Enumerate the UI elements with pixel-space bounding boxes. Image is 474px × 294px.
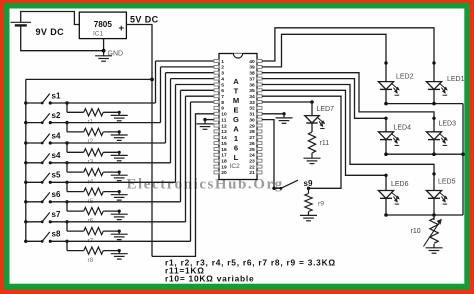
switch s4 xyxy=(26,134,52,145)
svg-text:18: 18 xyxy=(221,159,227,165)
svg-text:s1: s1 xyxy=(52,91,61,100)
wire pin 40 to LED1 anode xyxy=(262,28,434,82)
svg-text:IC2: IC2 xyxy=(230,163,241,170)
switch s1 xyxy=(26,94,52,105)
wire row3 bus to r10 xyxy=(433,215,435,220)
wire LED2 cathode drop xyxy=(385,89,387,103)
svg-text:7: 7 xyxy=(221,94,224,100)
ground row 4 xyxy=(111,171,128,181)
label r1 xyxy=(88,119,94,126)
wire s9 to r9 xyxy=(308,188,310,193)
svg-text:5: 5 xyxy=(221,82,224,88)
wire LED6 cathode drop xyxy=(385,198,387,215)
node bus junction row 6 xyxy=(24,200,27,203)
node row 1 junction xyxy=(65,101,68,104)
resistor r8 xyxy=(67,241,119,254)
svg-text:19: 19 xyxy=(221,164,227,170)
svg-text:r10= 10KΩ variable: r10= 10KΩ variable xyxy=(165,274,254,284)
label ATMEGA16L xyxy=(233,77,239,162)
ground row 1 xyxy=(111,111,128,121)
label resistor values line 2 xyxy=(165,266,205,276)
label s6 xyxy=(52,190,61,199)
svg-text:GND: GND xyxy=(108,51,124,58)
label resistor values line 3 xyxy=(165,274,254,284)
wire battery- to ground node xyxy=(21,25,104,50)
svg-text:39: 39 xyxy=(249,65,255,71)
svg-text:LED3: LED3 xyxy=(439,121,457,128)
IC U1 ATMEGA16L body xyxy=(219,54,257,180)
label s8 xyxy=(52,230,61,239)
svg-text:11: 11 xyxy=(221,117,226,123)
svg-text:r6: r6 xyxy=(88,217,94,224)
svg-text:+: + xyxy=(119,23,125,34)
wire row 7 riser to pin 7 xyxy=(186,96,214,222)
svg-text:25: 25 xyxy=(249,147,255,153)
wire LED row3 cathode bus xyxy=(386,214,463,216)
svg-text:20: 20 xyxy=(221,170,227,176)
svg-text:31: 31 xyxy=(249,112,255,118)
wire row 4 riser to pin 4 xyxy=(171,79,214,163)
label r3 xyxy=(88,159,94,166)
svg-text:22: 22 xyxy=(249,164,255,170)
watermark ElectronicsHub.Org xyxy=(127,177,284,193)
ground symbol r10 xyxy=(426,244,443,253)
node bus junction row 8 xyxy=(24,240,27,243)
wire row 2 to column xyxy=(50,122,160,124)
svg-text:5V DC: 5V DC xyxy=(130,14,159,24)
svg-text:32: 32 xyxy=(249,106,255,112)
node bus junction row 5 xyxy=(24,181,27,184)
LED LED7 xyxy=(305,116,325,129)
wire LED row1 cathode bus xyxy=(386,103,463,105)
svg-text:L: L xyxy=(234,153,239,162)
label s7 xyxy=(52,210,61,219)
switch s9 xyxy=(274,180,310,190)
ground symbol at pin 11 xyxy=(197,120,214,130)
label LED3 xyxy=(439,121,457,128)
label LED5 xyxy=(438,178,456,185)
wire battery+ to 7805 input xyxy=(21,12,80,25)
svg-text:8: 8 xyxy=(221,100,224,106)
wire pin 39 to LED2 anode xyxy=(262,34,386,81)
label GND xyxy=(108,51,124,58)
svg-text:s9: s9 xyxy=(304,179,313,188)
svg-text:LED5: LED5 xyxy=(438,178,456,185)
wire r11 to ground xyxy=(311,153,313,158)
LED LED6 xyxy=(378,191,399,205)
svg-text:37: 37 xyxy=(249,76,255,82)
svg-text:24: 24 xyxy=(249,153,255,159)
svg-text:29: 29 xyxy=(249,123,255,129)
node bus junction row 3 xyxy=(24,141,27,144)
svg-text:14: 14 xyxy=(221,135,227,141)
label r5 xyxy=(88,198,94,205)
svg-text:36: 36 xyxy=(249,82,255,88)
node bus junction row 4 xyxy=(24,161,27,164)
label IC2 xyxy=(230,163,241,170)
svg-text:2: 2 xyxy=(221,65,224,71)
resistor r5 xyxy=(67,182,119,195)
LED LED2 xyxy=(378,82,399,96)
label r11 xyxy=(320,140,330,147)
label LED6 xyxy=(391,181,409,188)
svg-text:34: 34 xyxy=(249,94,255,100)
resistor r4 xyxy=(67,163,119,176)
svg-text:9V DC: 9V DC xyxy=(36,27,65,37)
ground row 7 xyxy=(111,230,128,240)
svg-text:27: 27 xyxy=(249,135,255,141)
label 9V DC xyxy=(36,27,65,37)
node ground junction xyxy=(102,49,106,53)
resistor r11 xyxy=(308,132,315,153)
wire LED7 anode drop xyxy=(311,102,313,116)
node LED1 anode stub xyxy=(432,61,435,64)
label LED2 xyxy=(396,74,414,81)
svg-text:38: 38 xyxy=(249,71,255,77)
switch s5 xyxy=(26,173,52,184)
svg-text:G: G xyxy=(233,115,239,124)
resistor r7 xyxy=(67,222,119,235)
svg-text:r10: r10 xyxy=(411,228,421,235)
wire row 5 riser to pin 5 xyxy=(176,85,214,183)
node LED6 anode junction xyxy=(384,174,387,177)
node bus junction row 7 xyxy=(24,220,27,223)
svg-text:ElectronicsHub.Org: ElectronicsHub.Org xyxy=(127,177,284,193)
svg-text:33: 33 xyxy=(249,100,255,106)
node row3 cathode junctions xyxy=(384,213,436,217)
wire row 4 to column xyxy=(50,162,170,164)
node pin 11 ground junction xyxy=(203,118,206,121)
wire row 3 to column xyxy=(50,142,165,144)
wire pin 31 to ground xyxy=(262,113,284,115)
svg-text:E: E xyxy=(233,106,238,115)
wire row 7 to column xyxy=(50,221,185,223)
LED LED3 xyxy=(426,132,447,146)
label s4 xyxy=(52,151,61,160)
svg-text:28: 28 xyxy=(249,129,255,135)
svg-text:IC1: IC1 xyxy=(93,31,104,38)
svg-text:LED2: LED2 xyxy=(396,74,414,81)
wire pin 37 to LED4 anode xyxy=(262,79,386,132)
svg-text:23: 23 xyxy=(249,159,255,165)
svg-text:A: A xyxy=(233,125,239,134)
svg-text:r8: r8 xyxy=(88,257,94,264)
node LED7 anode junction xyxy=(310,100,314,104)
ground row 6 xyxy=(111,210,128,220)
svg-text:s6: s6 xyxy=(52,190,61,199)
svg-text:r2: r2 xyxy=(88,138,94,145)
svg-text:s2: s2 xyxy=(52,111,61,120)
svg-text:M: M xyxy=(233,96,239,105)
svg-text:9: 9 xyxy=(221,106,224,112)
wire switch bus vertical xyxy=(25,79,27,241)
svg-text:LED4: LED4 xyxy=(394,124,412,131)
svg-text:LED6: LED6 xyxy=(391,181,409,188)
node bus junction row 1 xyxy=(24,101,27,104)
switch s4 xyxy=(26,153,52,164)
resistor r1 xyxy=(67,103,119,116)
wire pin 36 to LED5 anode xyxy=(262,85,434,191)
label r2 xyxy=(88,138,94,145)
node row 5 junction xyxy=(65,181,68,184)
wire row 6 to column xyxy=(50,201,180,203)
svg-text:r11: r11 xyxy=(320,140,330,147)
wire LED3 cathode drop xyxy=(433,140,435,155)
svg-text:r9: r9 xyxy=(318,201,324,208)
wire row 1 to column xyxy=(50,102,155,104)
wire LED4 cathode drop xyxy=(385,140,387,155)
wire row 8 to column xyxy=(50,240,190,242)
wire pin 33 to LED7 xyxy=(262,101,312,103)
switch s2 xyxy=(26,113,52,124)
IC U1 pin numbers xyxy=(221,59,255,176)
node LED4 anode junction xyxy=(384,117,387,120)
ground row 5 xyxy=(111,190,128,200)
resistor r9 xyxy=(305,194,312,212)
label r8 xyxy=(88,257,94,264)
svg-text:s4: s4 xyxy=(52,151,61,160)
switch s8 xyxy=(26,232,52,243)
wire cathode rail xyxy=(462,104,464,215)
ground row 3 xyxy=(111,151,128,161)
wire row 3 riser to pin 3 xyxy=(166,73,214,143)
label r4 xyxy=(88,178,94,185)
ground row 2 xyxy=(111,130,128,140)
node s9 pivot xyxy=(272,187,275,190)
node row 8 junction xyxy=(65,240,68,243)
wire row 8 riser to pin 8 xyxy=(191,102,214,241)
ground symbol r11 xyxy=(304,158,321,163)
ground symbol pin 31 xyxy=(276,114,293,124)
svg-text:3: 3 xyxy=(221,71,224,77)
wire pin 11 to ground xyxy=(205,119,214,121)
node LED2 anode stub xyxy=(384,61,387,64)
resistor r3 xyxy=(67,143,119,156)
wire row 1 riser to pin 1 xyxy=(156,61,214,103)
wire r9 to ground xyxy=(308,212,310,216)
wire pin 30 to s9 xyxy=(262,120,274,189)
svg-text:13: 13 xyxy=(221,129,227,135)
node row 7 junction xyxy=(65,220,68,223)
wire LED row2 cathode bus xyxy=(386,153,463,155)
switch s6 xyxy=(26,192,52,203)
wire switch bus top to 5V xyxy=(26,78,152,80)
label s5 xyxy=(52,171,61,180)
wire pin 35 to LED6 anode xyxy=(262,90,386,190)
ground symbol main xyxy=(95,51,112,62)
svg-text:12: 12 xyxy=(221,123,227,129)
wire LED1 cathode drop xyxy=(433,89,435,103)
svg-text:16: 16 xyxy=(221,147,227,153)
svg-text:26: 26 xyxy=(249,141,255,147)
svg-text:1: 1 xyxy=(221,59,224,65)
svg-text:6: 6 xyxy=(221,88,224,94)
svg-text:s7: s7 xyxy=(52,210,61,219)
svg-text:s8: s8 xyxy=(52,230,61,239)
svg-text:21: 21 xyxy=(249,170,255,176)
label s1 xyxy=(52,91,61,100)
LED LED4 xyxy=(378,132,399,146)
node LED5 anode stub xyxy=(432,172,435,175)
svg-text:LED7: LED7 xyxy=(317,106,335,113)
label r9 xyxy=(318,201,324,208)
wire 5V output rail xyxy=(126,25,152,257)
svg-text:LED1: LED1 xyxy=(447,76,465,83)
svg-text:40: 40 xyxy=(249,59,255,65)
svg-text:4: 4 xyxy=(221,76,224,82)
wire row 2 riser to pin 2 xyxy=(161,67,214,123)
node row 2 junction xyxy=(65,121,68,124)
svg-text:30: 30 xyxy=(249,117,255,123)
wire pin 38 to LED3 anode xyxy=(262,73,434,132)
LED LED1 xyxy=(426,82,447,96)
label 5V DC xyxy=(130,14,159,24)
wire row 5 to column xyxy=(50,181,175,183)
svg-text:6: 6 xyxy=(234,144,238,153)
svg-text:r3: r3 xyxy=(88,159,94,166)
node row 4 junction xyxy=(65,161,68,164)
label s4 xyxy=(52,131,61,140)
node row 6 junction xyxy=(65,200,68,203)
wire LED7 cathode to r11 xyxy=(311,123,313,132)
label r6 xyxy=(88,217,94,224)
switch s7 xyxy=(26,212,52,223)
ground symbol r9 xyxy=(300,215,317,220)
label r7 xyxy=(88,237,94,244)
svg-text:17: 17 xyxy=(221,153,227,159)
wire VCC to pin 10 xyxy=(152,114,214,257)
label LED7 xyxy=(317,106,335,113)
svg-text:s4: s4 xyxy=(52,131,61,140)
wire 7805 GND pin down xyxy=(103,39,105,51)
svg-text:7805: 7805 xyxy=(94,20,113,29)
svg-text:A: A xyxy=(233,77,239,86)
IC U1 pin stubs xyxy=(214,60,262,174)
ground row 8 xyxy=(111,249,128,259)
node pin 31 ground junction xyxy=(282,112,285,115)
resistor r2 xyxy=(67,123,119,136)
wire s9 to pin 34 xyxy=(262,96,341,188)
svg-text:s5: s5 xyxy=(52,171,61,180)
svg-text:35: 35 xyxy=(249,88,255,94)
label s9 xyxy=(304,179,313,188)
wire row 6 riser to pin 6 xyxy=(181,90,214,202)
svg-text:10: 10 xyxy=(221,112,227,118)
node LED3 anode stub xyxy=(432,117,435,120)
node bus junction row 2 xyxy=(24,121,27,124)
battery BT1 9V DC xyxy=(11,22,32,25)
node 5V to switch-bus junction xyxy=(150,78,154,82)
node row 3 junction xyxy=(65,141,68,144)
node row1 cathode junctions xyxy=(384,102,436,106)
node row2 cathode junctions xyxy=(384,152,465,156)
resistor r10 variable xyxy=(424,218,442,246)
LED LED5 xyxy=(426,191,447,205)
svg-text:15: 15 xyxy=(221,141,227,147)
label LED1 xyxy=(447,76,465,83)
label s2 xyxy=(52,111,61,120)
resistor r6 xyxy=(67,202,119,215)
label r10 xyxy=(411,228,421,235)
svg-text:T: T xyxy=(234,87,239,96)
label resistor values line 1 xyxy=(165,258,336,268)
wire LED5 cathode drop xyxy=(433,198,435,215)
label LED4 xyxy=(394,124,412,131)
regulator IC1 7805 xyxy=(79,12,126,38)
